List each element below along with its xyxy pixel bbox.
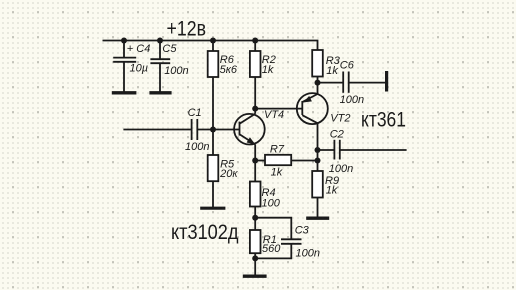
node R3/C6/VT2 emitter <box>315 80 321 86</box>
node on rail at C5 <box>157 38 163 44</box>
svg-text:100n: 100n <box>185 141 209 153</box>
svg-text:1k: 1k <box>326 184 338 196</box>
node VT2 collector / C2 <box>315 147 321 153</box>
wire VT2 collector down <box>317 123 319 171</box>
svg-text:1k: 1k <box>271 166 283 178</box>
wire VT2 emitter up <box>317 83 319 94</box>
svg-text:C1: C1 <box>188 107 202 119</box>
node VT4 emitter / R7 / R4 <box>252 158 258 164</box>
svg-text:VT4: VT4 <box>264 109 284 121</box>
svg-text:R7: R7 <box>270 143 285 155</box>
svg-text:5к6: 5к6 <box>220 64 238 76</box>
svg-text:560: 560 <box>262 243 281 255</box>
node on rail at C4 <box>121 38 127 44</box>
ground (C5) <box>149 91 171 94</box>
capacitor C1 <box>185 107 240 153</box>
node on rail at R2 <box>252 38 258 44</box>
svg-text:кт361: кт361 <box>361 109 406 132</box>
node on rail at R6 <box>210 38 216 44</box>
capacitor C6 <box>318 60 386 106</box>
svg-text:кт3102д: кт3102д <box>171 221 239 244</box>
resistor R4 <box>250 161 281 218</box>
node input/base <box>210 127 216 133</box>
svg-text:+12в: +12в <box>167 18 207 41</box>
svg-text:100n: 100n <box>296 248 320 260</box>
wire VT4 emitter down <box>254 144 256 160</box>
resistor R5 <box>208 130 239 208</box>
node R1/C3 bottom <box>252 255 258 261</box>
svg-text:1k: 1k <box>326 65 338 77</box>
capacitor C2 <box>318 128 407 175</box>
capacitor C3 <box>255 218 320 260</box>
svg-text:C2: C2 <box>330 128 344 140</box>
wire to bottom ground <box>254 258 256 274</box>
resistor R1 <box>250 218 281 259</box>
terminal (output right of C6) <box>385 71 388 92</box>
svg-text:100n: 100n <box>340 94 364 106</box>
svg-text:1k: 1k <box>262 64 274 76</box>
node R4/R1/C3 <box>252 215 258 221</box>
transistor VT2 <box>297 93 351 124</box>
node VT4 collector <box>252 106 258 112</box>
resistor R6 <box>208 41 238 130</box>
svg-text:100: 100 <box>262 197 281 209</box>
svg-text:+ C4: + C4 <box>127 43 151 55</box>
node R7/R9 <box>315 158 321 164</box>
resistor R2 <box>250 41 276 109</box>
svg-text:C5: C5 <box>162 43 177 55</box>
svg-text:C6: C6 <box>340 60 355 72</box>
svg-text:100n: 100n <box>329 163 353 175</box>
resistor R7 <box>255 143 317 178</box>
resistor R3 <box>312 50 341 83</box>
resistor R9 <box>312 171 339 217</box>
ground (R5) <box>200 207 225 210</box>
wire power rail +12V <box>103 41 318 51</box>
wire collector to VT2 base <box>255 108 302 110</box>
capacitor C5 <box>150 41 188 92</box>
svg-text:VT2: VT2 <box>330 112 350 124</box>
wire VT4 collector up <box>254 109 256 114</box>
wire input line <box>123 129 190 131</box>
capacitor C4 <box>113 41 150 92</box>
ground (R9) <box>306 217 329 220</box>
svg-text:C3: C3 <box>295 225 310 237</box>
svg-text:100n: 100n <box>164 65 188 77</box>
svg-text:20к: 20к <box>219 168 238 180</box>
transistor VT4 <box>234 109 284 144</box>
svg-text:10µ: 10µ <box>130 63 149 75</box>
ground (C4) <box>112 91 137 94</box>
ground (R1/C3) <box>243 275 267 278</box>
